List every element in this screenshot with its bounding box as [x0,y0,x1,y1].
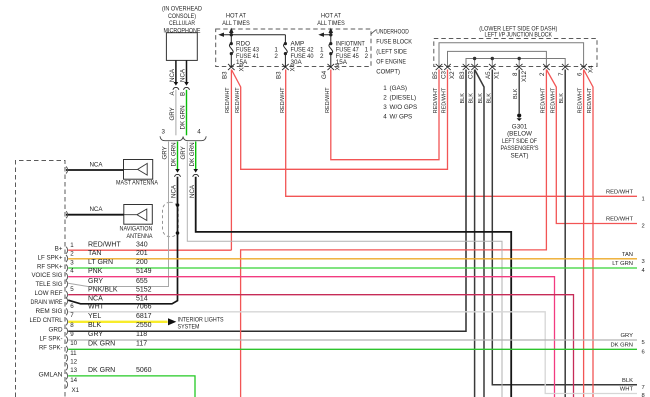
svg-text:2: 2 [365,53,369,60]
radio pin function labels [30,246,63,379]
svg-text:NCA: NCA [179,68,186,82]
wire RED/WHT junction pin 2 diagonal to right edge row 2 [546,70,637,224]
svg-text:514: 514 [136,296,148,303]
wire GRY second pair: down, right, down to bottom [187,142,502,397]
svg-text:7: 7 [642,385,645,391]
svg-text:LED CNTRL: LED CNTRL [30,317,63,324]
wire BLK junction pin 7 down to bottom [564,70,566,397]
svg-text:YEL: YEL [88,313,101,320]
RED/WHT rotated labels below fuses [225,87,331,113]
svg-text:7: 7 [558,72,565,76]
svg-text:BLK: BLK [622,378,633,384]
svg-text:(LEFT SIDE: (LEFT SIDE [376,48,407,55]
svg-text:(DIESEL): (DIESEL) [390,94,417,101]
variant legend [383,85,417,121]
svg-text:GRD: GRD [49,327,63,334]
svg-text:RED/WHT: RED/WHT [442,87,448,113]
inline connector on drain lead 2 [193,169,198,173]
svg-text:ALL TIMES: ALL TIMES [317,20,345,27]
wire RED/WHT junction pin 6 diagonal down to bottom [584,70,593,397]
junction block wire color labels rotated [433,87,593,113]
radio unit dashed box (left, partial) [16,161,66,397]
svg-text:CELLULAR: CELLULAR [169,20,195,27]
svg-text:B3: B3 [459,71,466,79]
wire LT GRN radio RF SPK+ row to right edge row 4 (ckt 200) [68,267,637,269]
svg-text:RED/WHT: RED/WHT [433,87,439,113]
junction dot feed/INFOTMNT [329,33,332,36]
svg-text:GRY: GRY [88,331,103,338]
svg-text:RED/WHT: RED/WHT [606,217,634,223]
interior lights arrow [168,318,176,325]
svg-text:12: 12 [70,359,77,366]
svg-text:RED/WHT: RED/WHT [587,87,593,113]
wire GRY shielded tele-sig: down through shield to radio TELE SIG row (ckt 655) [68,142,168,287]
wire BLK junction A5/X1 to right edge row 7 [492,70,637,385]
cellular microphone box U-MIC [162,6,202,61]
svg-text:FUSE BLOCK: FUSE BLOCK [376,38,412,45]
svg-text:W/O GPS: W/O GPS [390,104,418,111]
connector X mark INFOTMNT G4/X4 [328,64,335,70]
svg-text:200: 200 [136,259,148,266]
svg-text:2: 2 [320,53,324,60]
svg-text:RED/WHT: RED/WHT [225,87,231,113]
svg-text:BLK: BLK [513,88,519,99]
svg-text:B+: B+ [55,246,63,253]
svg-text:SYSTEM: SYSTEM [178,324,200,331]
rotated labels: mic leads [169,68,187,129]
svg-text:NCA: NCA [189,184,196,198]
svg-text:7066: 7066 [136,303,152,310]
svg-text:4: 4 [70,268,74,275]
svg-text:COMPT): COMPT) [376,68,400,75]
wire RED/WHT radio B+ row (pin 1, ckt 340) [68,249,231,251]
svg-text:INTERIOR LIGHTS: INTERIOR LIGHTS [178,317,224,324]
svg-text:ANTENNA: ANTENNA [127,233,154,240]
junction block pin labels rotated [432,65,595,82]
svg-text:NCA: NCA [89,162,103,169]
wire NCA radio to mast antenna [66,169,124,171]
svg-text:BLK: BLK [460,93,466,104]
svg-text:NCA: NCA [171,184,178,198]
wire BLK junction C3 diagonal branch down [475,70,484,397]
junction block internal bus 2 (C3/X2 to pin 2) [448,51,547,66]
svg-text:LT GRN: LT GRN [612,261,633,267]
feed INFOTMNT [321,32,331,44]
wire RED/WHT junction pin 6 straight down to bottom [583,70,585,397]
svg-text:2: 2 [383,94,387,101]
svg-text:BLK: BLK [469,93,475,104]
fuse RDO 15A symbol [229,44,233,67]
svg-text:X4: X4 [239,63,246,71]
svg-text:LT GRN: LT GRN [88,259,113,266]
junction dot feed/RDO [230,33,233,36]
svg-text:14: 14 [70,377,77,384]
navigation antenna box [120,205,154,240]
svg-text:RED/WHT: RED/WHT [540,87,546,113]
svg-text:9: 9 [70,331,74,338]
svg-text:HOT AT: HOT AT [321,13,341,20]
svg-text:X1: X1 [494,71,501,79]
svg-text:NCA: NCA [88,296,103,303]
svg-text:10: 10 [70,340,77,347]
wire RED/WHT AMP to right edge row 1 [286,70,637,197]
svg-text:TAN: TAN [88,250,101,257]
radio pin numbers [70,242,79,394]
svg-text:11: 11 [70,350,77,357]
svg-text:LEFT SIDE OF: LEFT SIDE OF [502,138,537,145]
svg-text:HOT AT: HOT AT [226,13,246,20]
svg-text:5: 5 [642,340,645,346]
svg-text:OF ENGINE: OF ENGINE [376,58,406,65]
hot at all times label (right feed) [317,13,345,28]
mast antenna box [116,160,159,187]
wire NCA mic lead B [186,60,188,83]
svg-text:RF SPK-: RF SPK- [39,345,63,352]
svg-text:B3: B3 [221,71,228,79]
fuse RDO text [236,40,278,66]
svg-text:4: 4 [383,114,387,121]
svg-text:SEAT): SEAT) [510,152,528,159]
svg-text:2: 2 [70,250,74,257]
inline connector A [174,82,179,86]
svg-text:3: 3 [383,104,387,111]
svg-text:LF SPK+: LF SPK+ [38,254,63,261]
svg-text:PNK/BLK: PNK/BLK [88,286,118,293]
svg-text:C3: C3 [440,71,447,79]
svg-text:NAVIGATION: NAVIGATION [120,226,153,233]
svg-text:GRY: GRY [88,278,103,285]
fuse block callout text [371,28,413,75]
wire BLK junction C3 straight down [474,70,476,397]
wire BLK junction 8/X12 to G301 [518,70,520,114]
junction block title [479,25,557,38]
wire RED/WHT RDO X4 down, right to junction C3/X2 [231,70,447,170]
svg-text:X12: X12 [521,70,528,82]
ground bus junction dots [473,57,476,60]
svg-text:GRY: GRY [169,107,176,120]
svg-text:5149: 5149 [136,268,152,275]
wire RED/WHT RDO B3 down to radio B+ row [230,70,232,251]
svg-text:RED/WHT: RED/WHT [325,87,331,113]
svg-text:CONSOLE): CONSOLE) [168,13,196,20]
shield-to-drain junction dot upper [176,203,180,207]
wire RED/WHT junction pin 2 straight: down, left, down to bottom [241,70,547,397]
wire TAN radio LF SPK+ row to right edge row 3 (ckt 201) [68,258,637,260]
G301 ground label [501,124,539,160]
wire NCA drain: down to radio DRAIN WIRE row (ckt 514) [68,177,177,304]
connector X mark RDO B3/X4 [228,64,235,70]
svg-text:4: 4 [197,129,201,136]
svg-text:2: 2 [642,224,645,230]
svg-text:C3: C3 [467,71,474,79]
wire NCA mic lead A [175,60,177,83]
svg-text:X1: X1 [72,387,80,394]
svg-text:W/ GPS: W/ GPS [390,114,413,121]
feed arrow left (INFOTMNT) [318,33,324,37]
fuse INFOTMNT text [336,40,369,66]
svg-text:DRAIN WIRE: DRAIN WIRE [31,299,63,306]
svg-text:GRY: GRY [161,146,168,159]
svg-text:LF SPK-: LF SPK- [40,336,63,343]
fuse AMP text [291,40,325,66]
interior lights system label [178,317,224,331]
svg-text:2550: 2550 [136,322,152,329]
feed arrow up (INFOTMNT) [329,28,334,33]
svg-text:DK GRN: DK GRN [179,105,186,129]
svg-text:RED/WHT: RED/WHT [578,87,584,113]
svg-text:DK GRN: DK GRN [88,367,115,374]
svg-text:NCA: NCA [169,68,176,82]
svg-text:DK GRN: DK GRN [610,343,633,349]
svg-text:GRY: GRY [621,333,634,339]
junction block internal bus 1 (B5 to pin 6) [439,43,584,67]
svg-text:BLK: BLK [88,322,102,329]
wire NCA radio to navigation antenna [66,214,124,216]
svg-text:NCA: NCA [89,206,103,213]
svg-text:BLK: BLK [486,93,492,104]
svg-text:201: 201 [136,250,148,257]
feed arrow left (RDO/AMP) [218,33,224,37]
svg-text:ALL TIMES: ALL TIMES [222,20,250,27]
wire BLK junction B3 to radio GRD row (ckt 2550) [68,70,466,332]
svg-text:TELE SIG: TELE SIG [36,281,63,288]
svg-text:LEFT I/P JUNCTION BLOCK: LEFT I/P JUNCTION BLOCK [485,32,553,39]
fuse INFOTMNT 15A symbol [329,44,333,67]
svg-text:WHT: WHT [88,303,105,310]
wire DK GRN mic B to connector pin 4 [186,90,188,136]
radio connector pin arcs [66,167,68,389]
svg-text:117: 117 [136,340,147,347]
svg-text:DK GRN: DK GRN [88,340,115,347]
svg-text:3: 3 [642,259,645,265]
svg-text:3: 3 [162,129,166,136]
svg-text:340: 340 [136,241,148,248]
svg-text:8: 8 [642,393,645,397]
svg-text:8: 8 [512,72,519,76]
svg-text:BLK: BLK [559,93,565,104]
svg-text:RED/WHT: RED/WHT [280,87,286,113]
shield oval around tele-sig wire [163,202,179,236]
svg-text:VOICE SIG: VOICE SIG [32,272,63,279]
svg-text:RF SPK+: RF SPK+ [37,263,63,270]
svg-text:5152: 5152 [136,286,152,293]
junction block internal ground bus (B3 to pin 7) [466,59,565,67]
svg-text:8: 8 [70,322,74,329]
svg-text:GRY: GRY [180,146,187,159]
svg-text:1: 1 [70,242,74,249]
svg-text:MAST ANTENNA: MAST ANTENNA [116,179,159,186]
wire NCA second: down, right, down to bottom [196,177,512,397]
left IP junction block dashed box [434,39,597,67]
fuse AMP 30A symbol [284,44,288,67]
svg-text:6: 6 [576,72,583,76]
svg-text:MICROPHONE: MICROPHONE [164,27,201,34]
wire DK GRN pin 4a short [177,142,179,170]
svg-text:RED/WHT: RED/WHT [88,241,121,248]
svg-text:6: 6 [70,303,74,310]
svg-text:5060: 5060 [136,367,152,374]
rotated labels: four wires below connector 3/4 [161,142,196,198]
svg-text:5: 5 [70,286,74,293]
wire YEL radio LED CNTRL to interior lights arrow (ckt 6817) [68,321,167,323]
svg-text:B5: B5 [432,71,439,79]
right edge row labels and numbers [606,190,646,397]
svg-text:3: 3 [70,260,74,267]
svg-text:1: 1 [383,85,387,92]
svg-text:UNDERHOOD: UNDERHOOD [376,28,409,35]
svg-text:PASSENGER'S: PASSENGER'S [501,145,539,152]
svg-text:BLK: BLK [478,93,484,104]
svg-text:X4: X4 [289,63,296,71]
svg-text:13: 13 [70,367,77,374]
wire DK GRN pin 4b short [195,142,197,170]
svg-text:(BELOW: (BELOW [507,131,532,138]
svg-text:DK GRN: DK GRN [171,142,178,166]
inline connector brace pins 3/4 [160,136,206,140]
svg-text:TAN: TAN [622,252,633,258]
svg-text:REM SIG: REM SIG [36,308,63,315]
svg-text:118: 118 [136,331,147,338]
wire DK GRN radio RF SPK- row to right edge row 6 (ckt 117) [68,348,637,350]
svg-text:X4: X4 [587,65,594,73]
svg-text:G301: G301 [512,124,528,131]
svg-text:RED/WHT: RED/WHT [606,190,634,196]
svg-text:(IN OVERHEAD: (IN OVERHEAD [162,6,202,13]
svg-text:2: 2 [274,53,278,60]
connector X marks junction block pins [436,64,587,70]
inline connector B [184,82,189,86]
underhood fuse block dashed box [216,29,371,67]
svg-text:LOW REF: LOW REF [35,290,63,297]
svg-text:X4: X4 [335,62,342,70]
inline connector on drain lead 1 [175,169,180,173]
wire RED/WHT INFOTMNT to junction B5 [331,70,439,160]
wire GRY mic A to connector pin 3 [175,90,177,136]
connector X mark AMP B3/X4 [282,64,289,70]
svg-text:(GAS): (GAS) [390,85,408,92]
svg-text:PNK: PNK [88,268,103,275]
svg-text:DK GRN: DK GRN [189,142,196,166]
feed bus RDO/AMP inside fuse block [221,32,285,44]
radio wire name and circuit number labels [88,241,152,374]
svg-text:1: 1 [642,197,645,203]
svg-text:G4: G4 [321,70,328,79]
svg-text:RED/WHT: RED/WHT [235,87,241,113]
svg-text:6817: 6817 [136,313,152,320]
wire DK GRN radio GMLAN: right then down to bottom (ckt 5060) [68,376,195,397]
svg-text:RED/WHT: RED/WHT [550,87,556,113]
svg-text:2: 2 [539,72,546,76]
wire WHT radio REM SIG: right, down, right to edge row 8 (ckt 7066) [68,312,637,394]
ground G301 symbol [517,113,521,117]
svg-text:655: 655 [136,278,148,285]
fuse connector pin labels rotated [221,62,341,79]
svg-text:X2: X2 [449,71,456,79]
svg-text:B: B [179,92,186,96]
svg-text:B3: B3 [275,71,282,79]
hot at all times label (left feed) [222,13,250,28]
svg-text:7: 7 [70,312,74,319]
feed arrow up (RDO/AMP) [229,28,234,33]
svg-text:6: 6 [642,350,645,356]
wire PNK/BLK radio LOW REF: right then down to bottom (ckt 5152) [68,295,573,397]
svg-text:GMLAN: GMLAN [39,372,63,379]
wire PNK radio VOICE SIG: right then down to bottom (ckt 5149) [68,277,554,397]
svg-text:A5: A5 [485,71,492,79]
shield-to-drain junction dot lower [176,231,180,235]
wire GRY radio LF SPK- row to right edge row 5 (ckt 118) [68,339,637,341]
svg-text:WHT: WHT [620,387,634,393]
